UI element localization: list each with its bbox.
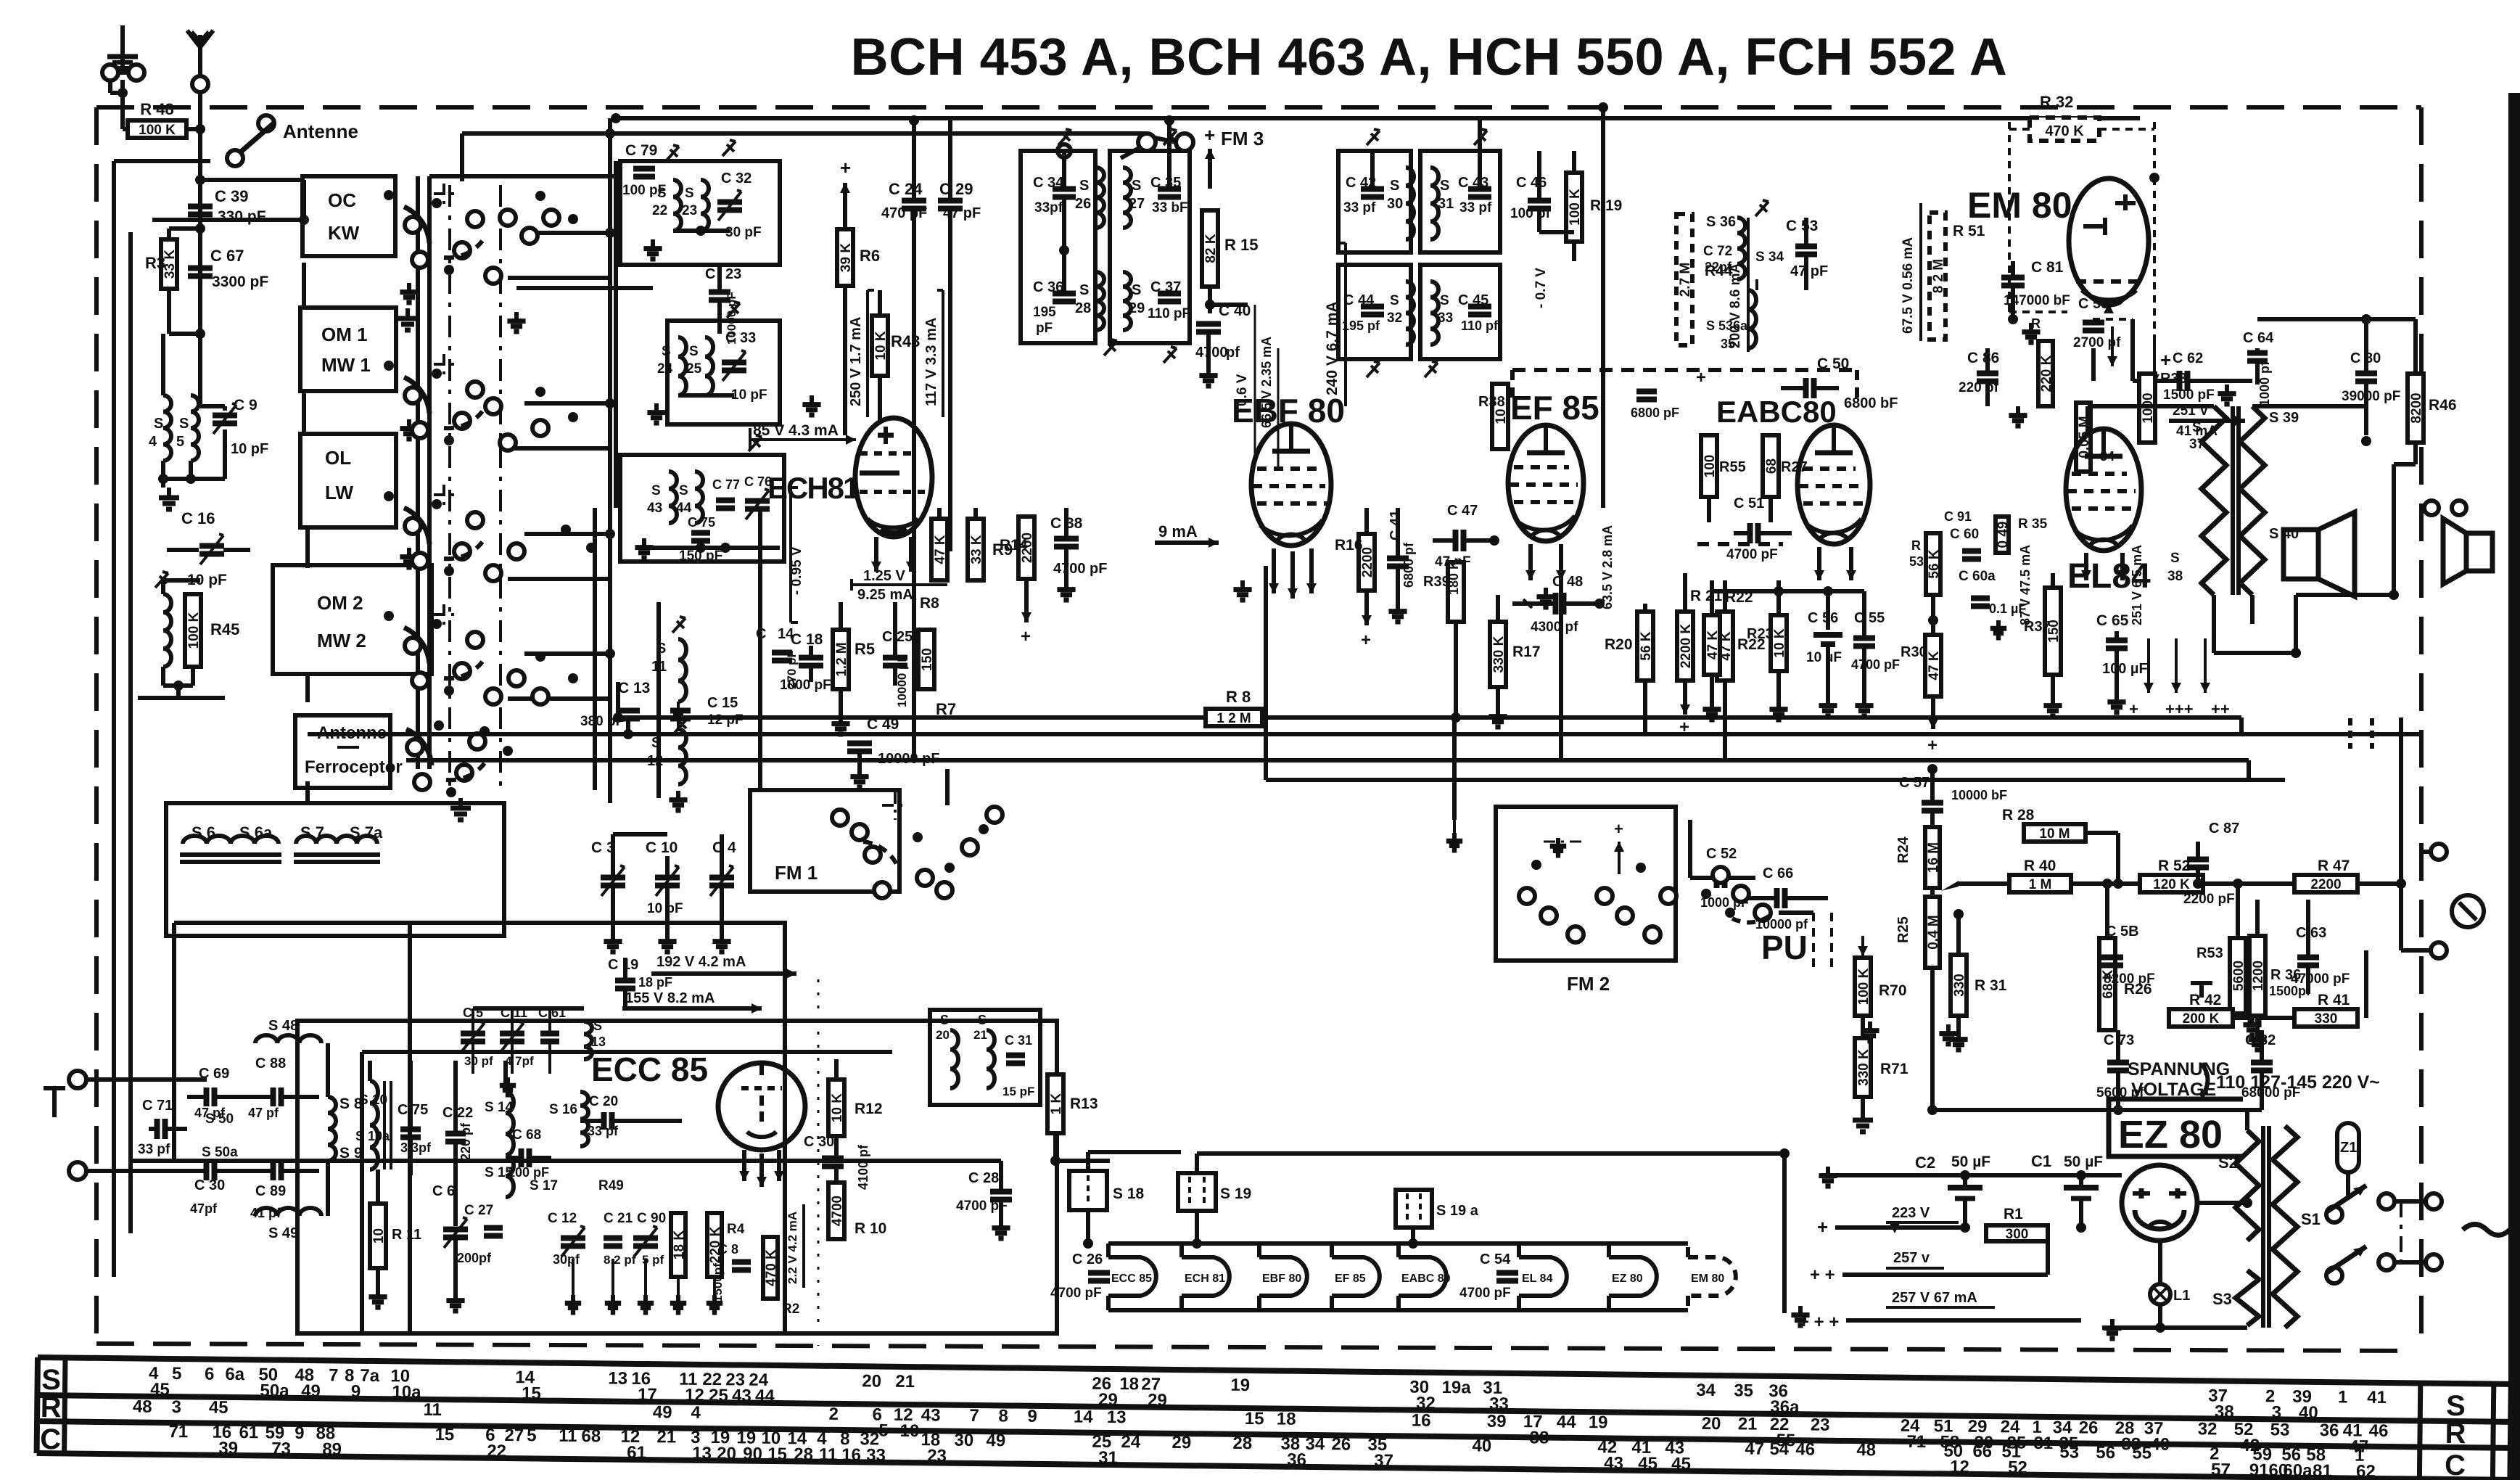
svg-text:30: 30	[954, 1431, 973, 1450]
svg-text:0.4 M: 0.4 M	[1926, 915, 1941, 950]
svg-text:24: 24	[657, 361, 673, 377]
svg-text:C 69: C 69	[199, 1066, 229, 1082]
svg-text:22pf: 22pf	[1705, 260, 1732, 274]
svg-text:10a: 10a	[392, 1382, 421, 1402]
svg-text:37: 37	[1374, 1451, 1393, 1471]
svg-text:MW 2: MW 2	[317, 630, 366, 651]
svg-text:12: 12	[1950, 1458, 1969, 1477]
svg-text:2200: 2200	[2310, 877, 2341, 892]
svg-text:C 27: C 27	[464, 1203, 493, 1218]
svg-text:4: 4	[149, 434, 157, 450]
svg-text:+: +	[1021, 627, 1031, 646]
svg-text:90: 90	[743, 1444, 762, 1464]
svg-text:20: 20	[717, 1444, 736, 1463]
svg-text:63.5 V 2.8 mA: 63.5 V 2.8 mA	[1600, 525, 1615, 609]
svg-text:36: 36	[1287, 1450, 1306, 1470]
svg-text:35: 35	[1721, 337, 1735, 351]
svg-text:220 pf: 220 pf	[1959, 380, 1999, 395]
svg-text:38: 38	[2167, 569, 2183, 584]
svg-text:C 16: C 16	[181, 509, 215, 527]
svg-text:S2: S2	[2218, 1154, 2238, 1172]
svg-text:ECH81: ECH81	[767, 471, 860, 505]
svg-text:R: R	[2445, 1418, 2466, 1450]
svg-text:100 K: 100 K	[139, 123, 176, 138]
svg-text:10 pF: 10 pF	[187, 572, 227, 588]
svg-text:S 34: S 34	[1755, 250, 1784, 265]
svg-text:C 56: C 56	[1808, 610, 1838, 626]
svg-text:6a: 6a	[225, 1365, 245, 1384]
svg-text:110 pf: 110 pf	[1461, 318, 1499, 333]
svg-text:38: 38	[2215, 1402, 2234, 1421]
svg-text:48: 48	[133, 1397, 152, 1416]
svg-text:49: 49	[653, 1402, 672, 1422]
svg-text:192 V 4.2 mA: 192 V 4.2 mA	[656, 954, 746, 970]
svg-text:27: 27	[1129, 196, 1145, 212]
svg-text:10000 pF: 10000 pF	[725, 292, 738, 345]
svg-text:30 pF: 30 pF	[725, 225, 762, 240]
svg-text:110 127-145 220 V~: 110 127-145 220 V~	[2216, 1072, 2380, 1093]
svg-text:32: 32	[1387, 311, 1402, 326]
svg-text:4700: 4700	[1195, 345, 1228, 361]
svg-text:OC: OC	[328, 189, 356, 211]
svg-text:43: 43	[647, 501, 662, 516]
svg-text:4700 pF: 4700 pF	[1053, 561, 1107, 577]
svg-text:C 51: C 51	[1734, 496, 1764, 511]
svg-text:C 64: C 64	[2243, 330, 2274, 346]
svg-text:33 K: 33 K	[969, 535, 984, 564]
svg-text:155 V 8.2 mA: 155 V 8.2 mA	[625, 990, 715, 1006]
svg-text:19: 19	[1589, 1413, 1608, 1432]
svg-text:100 pf: 100 pf	[1510, 206, 1551, 221]
svg-text:2200 pF: 2200 pF	[2183, 892, 2235, 907]
svg-text:C 13: C 13	[618, 680, 650, 696]
svg-text:S: S	[662, 344, 671, 359]
svg-text:S: S	[940, 1013, 949, 1027]
svg-text:4: 4	[691, 1403, 701, 1423]
svg-text:R20: R20	[1605, 636, 1633, 653]
svg-text:+: +	[1927, 736, 1938, 755]
svg-text:C 65: C 65	[2096, 612, 2129, 629]
svg-text:50 µF: 50 µF	[2064, 1154, 2103, 1170]
svg-text:EZ 80: EZ 80	[1612, 1273, 1643, 1285]
svg-text:R30: R30	[1901, 644, 1927, 660]
svg-text:FM 2: FM 2	[1567, 973, 1610, 995]
svg-text:0 49: 0 49	[1996, 522, 2011, 548]
svg-text:R 52: R 52	[2158, 858, 2190, 874]
svg-text:16: 16	[1412, 1410, 1431, 1430]
svg-text:S 6a: S 6a	[239, 823, 273, 842]
svg-text:C 28: C 28	[968, 1170, 999, 1186]
svg-text:C 60a: C 60a	[1959, 569, 1996, 584]
svg-text:R 42: R 42	[2189, 992, 2221, 1008]
svg-text:195 pf: 195 pf	[1342, 318, 1380, 333]
svg-text:OL: OL	[325, 447, 351, 469]
svg-text:4700: 4700	[830, 1196, 845, 1226]
svg-text:C 81: C 81	[2031, 259, 2064, 276]
svg-text:5: 5	[527, 1426, 537, 1445]
svg-text:SPANNUNG: SPANNUNG	[2128, 1059, 2230, 1080]
svg-text:117 V 3.3 mA: 117 V 3.3 mA	[923, 318, 939, 406]
svg-text:OM 2: OM 2	[317, 592, 363, 614]
svg-text:46: 46	[2369, 1421, 2389, 1441]
svg-text:17: 17	[638, 1385, 657, 1405]
svg-text:+: +	[1204, 124, 1215, 146]
svg-text:R23: R23	[1747, 626, 1774, 642]
svg-text:85 V 4.3 mA: 85 V 4.3 mA	[753, 422, 839, 439]
svg-text:4700 pF: 4700 pF	[1459, 1286, 1511, 1301]
svg-text:82 K: 82 K	[1203, 234, 1219, 263]
svg-text:15: 15	[1245, 1409, 1264, 1428]
svg-text:EBF 80: EBF 80	[1262, 1273, 1301, 1285]
svg-text:R16: R16	[1335, 537, 1363, 554]
svg-text:R38: R38	[1478, 394, 1505, 410]
svg-text:7a: 7a	[360, 1366, 380, 1386]
svg-text:223 V: 223 V	[1892, 1205, 1930, 1221]
svg-text:EF 85: EF 85	[1510, 389, 1599, 427]
svg-text:C 60: C 60	[1950, 527, 1979, 542]
svg-text:61: 61	[239, 1423, 258, 1442]
svg-text:C 68: C 68	[512, 1127, 541, 1143]
svg-text:Z1: Z1	[2340, 1140, 2357, 1156]
svg-text:R 11: R 11	[392, 1227, 421, 1243]
svg-text:11: 11	[651, 659, 667, 675]
svg-text:C 39: C 39	[215, 187, 248, 205]
svg-text:S 19: S 19	[1220, 1185, 1251, 1202]
svg-text:S: S	[2170, 551, 2180, 566]
svg-text:R 15: R 15	[1224, 236, 1258, 254]
svg-text:+ + +: + + +	[1799, 1312, 1839, 1332]
svg-text:pF: pF	[1036, 321, 1053, 336]
svg-text:1500pf: 1500pf	[711, 1263, 725, 1302]
svg-text:R 32: R 32	[2040, 93, 2073, 111]
svg-text:43: 43	[921, 1405, 941, 1425]
svg-text:R25: R25	[1895, 916, 1911, 943]
svg-text:44: 44	[676, 501, 692, 516]
svg-text:3300 pF: 3300 pF	[212, 274, 268, 290]
svg-text:+: +	[1361, 630, 1371, 650]
svg-text:BCH 453 A, BCH 463 A, HCH 55: BCH 453 A, BCH 463 A, HCH 550 A, FCH 552…	[851, 28, 2008, 86]
svg-text:S: S	[657, 186, 667, 201]
svg-text:R: R	[2031, 316, 2041, 331]
svg-text:40: 40	[1472, 1436, 1491, 1455]
svg-text:21: 21	[656, 1427, 676, 1447]
svg-text:52: 52	[2008, 1458, 2027, 1477]
svg-text:S: S	[1390, 293, 1399, 308]
svg-text:C 91: C 91	[1944, 509, 1972, 524]
svg-text:27: 27	[504, 1426, 524, 1445]
svg-text:S 39: S 39	[2269, 410, 2299, 426]
svg-text:+: +	[1817, 1216, 1828, 1238]
svg-text:49: 49	[301, 1381, 321, 1401]
svg-text:28: 28	[1232, 1434, 1252, 1453]
svg-text:68: 68	[581, 1426, 601, 1446]
svg-text:49: 49	[986, 1431, 1005, 1450]
svg-text:C 47: C 47	[1447, 503, 1478, 519]
svg-text:C 77: C 77	[712, 477, 740, 492]
svg-text:200 V 8.6 mA: 200 V 8.6 mA	[1728, 263, 1743, 348]
svg-text:220 K: 220 K	[2039, 355, 2054, 392]
svg-text:53: 53	[2270, 1420, 2290, 1439]
svg-text:39: 39	[1487, 1412, 1507, 1431]
svg-text:39: 39	[218, 1439, 238, 1458]
svg-text:10 M: 10 M	[2039, 826, 2070, 842]
svg-text:47 K: 47 K	[1927, 651, 1942, 680]
svg-text:15 pF: 15 pF	[1002, 1085, 1034, 1098]
svg-text:330 pF: 330 pF	[218, 208, 266, 225]
svg-text:33 pf: 33 pf	[1343, 200, 1376, 215]
svg-text:13: 13	[608, 1369, 627, 1389]
svg-text:100 K: 100 K	[186, 612, 202, 649]
svg-text:18 K: 18 K	[672, 1230, 687, 1259]
svg-text:S 16: S 16	[549, 1102, 577, 1117]
svg-text:47pf: 47pf	[190, 1201, 218, 1216]
svg-text:R 19: R 19	[1590, 197, 1622, 214]
svg-text:1: 1	[2338, 1387, 2348, 1407]
svg-text:R45: R45	[210, 620, 239, 638]
svg-text:EF 85: EF 85	[1335, 1273, 1366, 1285]
svg-text:47 K: 47 K	[1705, 630, 1721, 659]
svg-text:10 pF: 10 pF	[647, 901, 683, 916]
svg-text:8 2 M: 8 2 M	[1931, 259, 1946, 294]
svg-text:EM 80: EM 80	[1691, 1273, 1724, 1285]
svg-text:S 18: S 18	[1113, 1185, 1145, 1202]
svg-text:11: 11	[423, 1400, 442, 1420]
svg-text:33: 33	[866, 1445, 886, 1465]
svg-text:23: 23	[927, 1446, 947, 1465]
svg-text:S3: S3	[2212, 1290, 2232, 1308]
svg-text:5: 5	[878, 1421, 889, 1441]
svg-text:C2: C2	[1915, 1154, 1935, 1172]
svg-text:22: 22	[487, 1442, 506, 1461]
svg-text:R1: R1	[2004, 1206, 2023, 1222]
svg-text:68: 68	[1764, 459, 1779, 474]
svg-text:S 49: S 49	[268, 1225, 298, 1241]
svg-text:251 V 6 5 mA: 251 V 6 5 mA	[2130, 545, 2144, 625]
svg-text:2.2 V 4.2 mA: 2.2 V 4.2 mA	[786, 1212, 799, 1284]
svg-text:100 pF: 100 pF	[508, 1165, 549, 1180]
svg-text:38: 38	[1529, 1428, 1549, 1447]
svg-text:C 75: C 75	[688, 515, 715, 530]
svg-text:4 7pf: 4 7pf	[505, 1054, 534, 1068]
svg-text:29: 29	[1129, 300, 1145, 316]
svg-text:71: 71	[1906, 1432, 1926, 1452]
svg-text:470 K: 470 K	[764, 1249, 779, 1286]
svg-text:47 pF: 47 pF	[1790, 263, 1828, 279]
svg-text:C 32: C 32	[721, 170, 752, 186]
svg-text:S 10: S 10	[359, 1093, 387, 1108]
svg-text:S 7: S 7	[300, 823, 324, 842]
svg-text:R: R	[1911, 538, 1921, 553]
svg-text:2200 K: 2200 K	[1679, 624, 1694, 669]
svg-text:R17: R17	[1512, 644, 1541, 660]
svg-text:34: 34	[1696, 1381, 1716, 1400]
svg-text:33 bF: 33 bF	[1152, 200, 1188, 215]
svg-text:10 µF: 10 µF	[1806, 650, 1842, 665]
svg-text:S: S	[1390, 178, 1399, 194]
svg-text:5: 5	[176, 434, 184, 450]
svg-text:S: S	[1079, 282, 1089, 298]
svg-text:15: 15	[522, 1384, 541, 1403]
svg-text:34: 34	[1305, 1434, 1325, 1454]
svg-text:C 59: C 59	[2078, 296, 2109, 312]
svg-text:220 pf: 220 pf	[458, 1122, 473, 1161]
svg-text:4700 pF: 4700 pF	[1726, 547, 1778, 562]
svg-text:21: 21	[1738, 1414, 1758, 1434]
svg-text:19: 19	[1230, 1376, 1250, 1395]
svg-text:13: 13	[692, 1444, 712, 1463]
svg-text:21: 21	[895, 1372, 915, 1391]
svg-text:C 31: C 31	[1005, 1033, 1032, 1048]
svg-text:R8: R8	[920, 595, 939, 612]
svg-text:7: 7	[329, 1365, 339, 1385]
svg-text:2700 pf: 2700 pf	[2073, 335, 2121, 350]
svg-text:C 53: C 53	[1786, 218, 1818, 234]
svg-text:2: 2	[828, 1405, 839, 1424]
svg-text:C 66: C 66	[1763, 866, 1793, 881]
svg-text:R12: R12	[855, 1101, 883, 1117]
svg-text:S 48: S 48	[268, 1018, 298, 1034]
svg-text:15: 15	[435, 1425, 454, 1444]
svg-text:R49: R49	[598, 1178, 624, 1193]
svg-text:1 K: 1 K	[1049, 1093, 1064, 1114]
svg-text:S1: S1	[2301, 1210, 2321, 1228]
svg-text:S: S	[685, 186, 694, 201]
svg-text:6800 pf: 6800 pf	[1401, 542, 1416, 588]
svg-text:470 K: 470 K	[2045, 123, 2084, 139]
svg-text:26: 26	[1331, 1434, 1351, 1454]
svg-text:45: 45	[1638, 1454, 1658, 1473]
svg-text:C 21: C 21	[604, 1211, 633, 1226]
svg-text:R70: R70	[1879, 982, 1907, 999]
svg-text:66: 66	[1972, 1442, 1992, 1461]
svg-text:14: 14	[1074, 1407, 1094, 1426]
svg-text:C 67: C 67	[210, 247, 244, 265]
svg-text:S: S	[1440, 293, 1449, 308]
svg-text:1 M: 1 M	[2029, 877, 2052, 892]
svg-text:9 mA: 9 mA	[1158, 522, 1198, 540]
svg-text:C: C	[40, 1423, 61, 1455]
svg-text:29: 29	[1172, 1433, 1191, 1452]
svg-text:18 pF: 18 pF	[638, 975, 672, 990]
svg-text:C 54: C 54	[1480, 1251, 1511, 1267]
svg-text:30pf: 30pf	[553, 1252, 580, 1267]
svg-text:ECC 85: ECC 85	[591, 1051, 708, 1088]
svg-text:257 v: 257 v	[1893, 1250, 1930, 1266]
svg-text:200 K: 200 K	[2183, 1011, 2220, 1027]
svg-text:43: 43	[1604, 1453, 1623, 1473]
svg-text:89: 89	[322, 1439, 342, 1459]
svg-text:10: 10	[899, 1421, 919, 1441]
svg-text:C 5B: C 5B	[2106, 924, 2139, 940]
svg-text:31: 31	[1438, 196, 1454, 212]
svg-text:C: C	[2445, 1450, 2466, 1480]
svg-text:100 µF: 100 µF	[2102, 661, 2148, 677]
svg-text:C 57: C 57	[1899, 775, 1930, 791]
svg-text:EABC 80: EABC 80	[1401, 1273, 1451, 1285]
svg-text:61: 61	[627, 1443, 646, 1463]
svg-text:16 M: 16 M	[1926, 842, 1941, 873]
svg-text:37: 37	[2189, 437, 2204, 452]
svg-text:300: 300	[2006, 1227, 2029, 1242]
svg-text:20: 20	[862, 1371, 881, 1391]
svg-text:S: S	[656, 641, 666, 657]
svg-text:150: 150	[920, 648, 935, 671]
svg-text:53: 53	[1909, 554, 1924, 569]
svg-text:13: 13	[591, 1035, 606, 1049]
svg-text:S: S	[689, 344, 699, 359]
svg-text:C: C	[705, 266, 715, 282]
svg-text:8200: 8200	[2409, 392, 2424, 423]
svg-text:R 31: R 31	[1975, 977, 2007, 994]
svg-text:R 35: R 35	[2018, 517, 2048, 532]
svg-text:S: S	[1132, 178, 1141, 194]
svg-text:1200: 1200	[2251, 961, 2266, 991]
svg-text:C 24: C 24	[889, 180, 923, 198]
svg-text:22: 22	[652, 203, 667, 218]
svg-text:44: 44	[1557, 1413, 1577, 1432]
svg-text:R 48: R 48	[140, 100, 173, 118]
svg-text:L1: L1	[2173, 1288, 2190, 1304]
svg-text:R: R	[41, 1391, 62, 1423]
svg-text:1.25 V: 1.25 V	[863, 568, 905, 584]
svg-text:10: 10	[1494, 408, 1509, 424]
svg-text:53: 53	[2059, 1442, 2079, 1462]
svg-text:270 pF: 270 pF	[785, 650, 799, 689]
svg-text:46: 46	[1795, 1439, 1815, 1459]
svg-text:R4: R4	[727, 1222, 745, 1237]
svg-text:45: 45	[1671, 1454, 1691, 1473]
svg-text:OM 1: OM 1	[321, 324, 368, 345]
svg-text:330: 330	[2315, 1011, 2338, 1027]
svg-text:EL 84: EL 84	[1522, 1273, 1553, 1285]
svg-text:44: 44	[755, 1386, 775, 1406]
svg-text:100 K: 100 K	[1568, 189, 1583, 226]
svg-text:C 8: C 8	[718, 1242, 738, 1257]
svg-text:20: 20	[936, 1028, 950, 1042]
svg-text:C 55: C 55	[1854, 610, 1885, 626]
svg-text:45: 45	[150, 1380, 170, 1399]
svg-text:39000 pF: 39000 pF	[2342, 389, 2400, 404]
svg-text:39 K: 39 K	[839, 243, 854, 272]
svg-text:S 50a: S 50a	[202, 1145, 238, 1160]
svg-text:45: 45	[209, 1398, 228, 1418]
svg-text:C 89: C 89	[255, 1183, 286, 1199]
svg-text:330 K: 330 K	[1856, 1049, 1872, 1086]
svg-text:23: 23	[682, 203, 697, 218]
svg-text:FM 3: FM 3	[1221, 128, 1264, 149]
svg-text:33pf: 33pf	[1034, 200, 1063, 215]
svg-text:14: 14	[778, 626, 794, 642]
svg-text:R53: R53	[2196, 945, 2223, 961]
svg-text:15: 15	[767, 1444, 787, 1464]
svg-text:13: 13	[1107, 1407, 1127, 1427]
svg-text:C1: C1	[2031, 1152, 2051, 1170]
svg-text:330 K: 330 K	[1491, 636, 1507, 673]
svg-text:C 90: C 90	[637, 1211, 666, 1226]
svg-text:S: S	[179, 416, 189, 432]
svg-text:C 71: C 71	[142, 1098, 173, 1114]
svg-text:9: 9	[295, 1423, 305, 1443]
svg-text:KW: KW	[328, 222, 360, 244]
svg-text:3: 3	[171, 1397, 181, 1417]
svg-text:48: 48	[1856, 1440, 1876, 1460]
svg-text:C 12: C 12	[548, 1211, 577, 1226]
svg-text:S 6: S 6	[192, 823, 215, 842]
svg-text:200pf: 200pf	[457, 1251, 492, 1265]
svg-text:50 µF: 50 µF	[1951, 1154, 1990, 1170]
svg-text:8200 pF: 8200 pF	[2104, 971, 2155, 987]
svg-text:ECH 81: ECH 81	[1185, 1273, 1225, 1285]
